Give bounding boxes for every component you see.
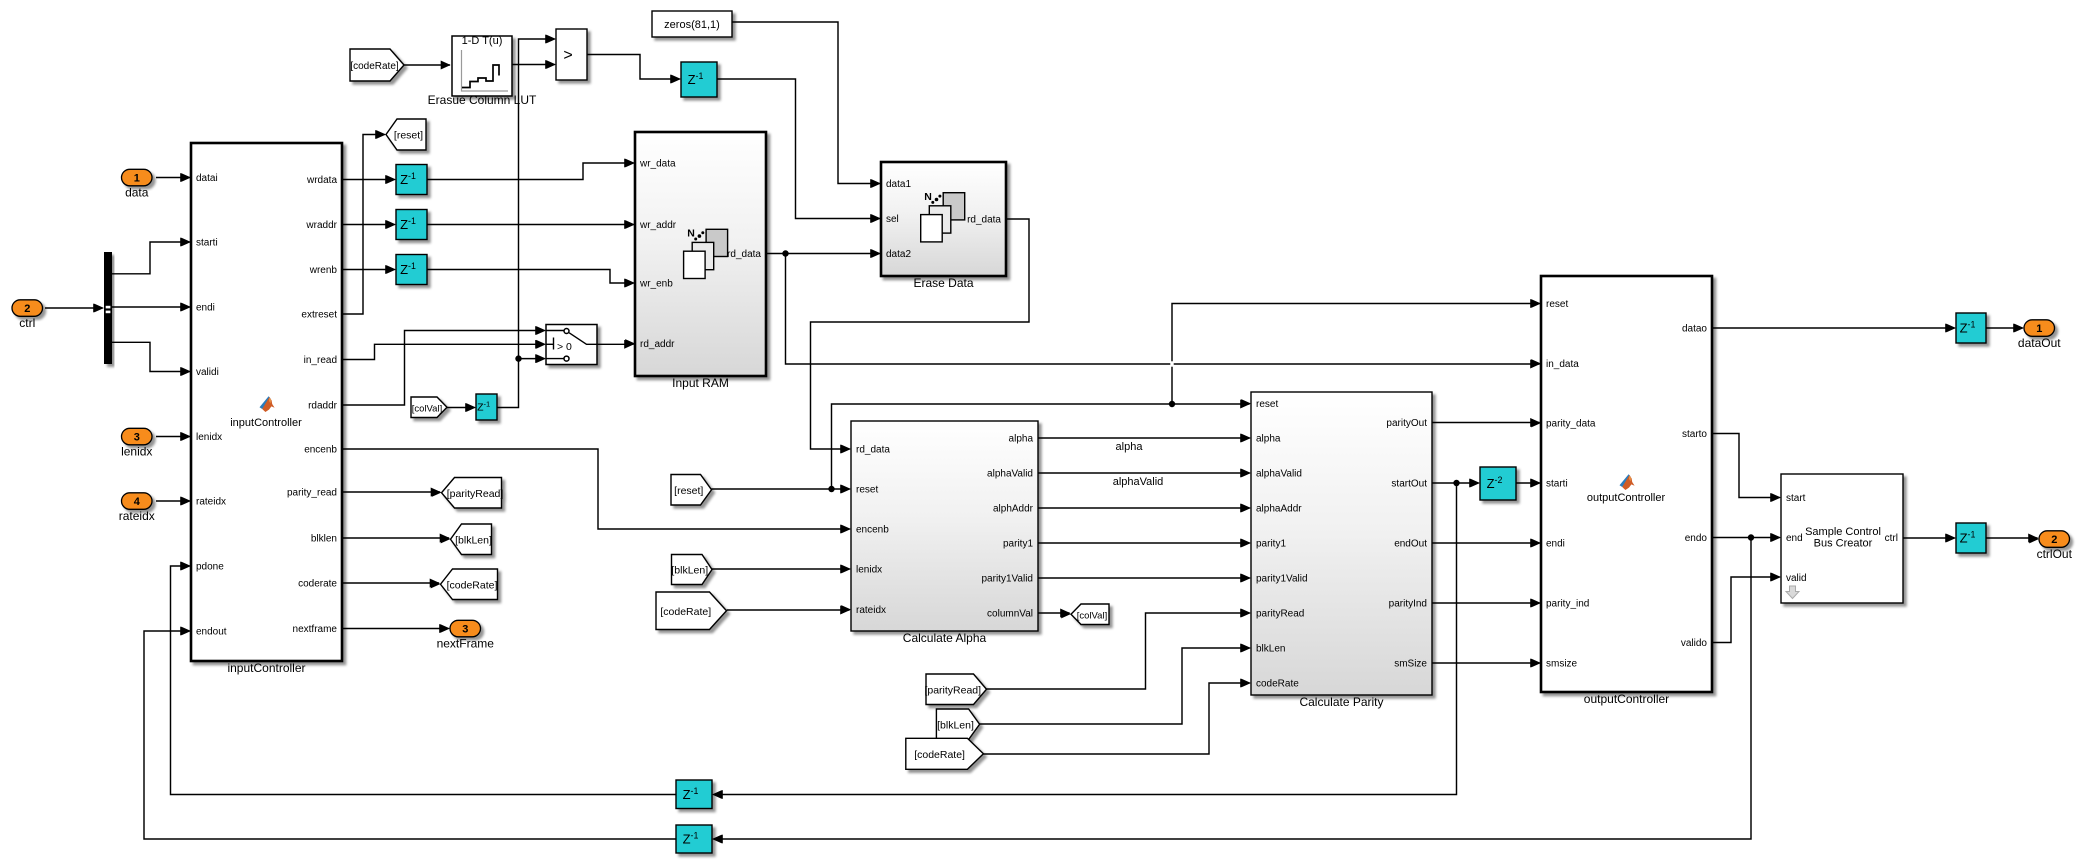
wire ctrl inport to demux [45,307,103,309]
svg-text:parity1: parity1 [1003,539,1033,550]
svg-text:starti: starti [1546,479,1568,490]
svg-text:smsize: smsize [1546,659,1578,670]
wire erase delay to Erase Data sel input [717,79,880,219]
svg-text:wrdata: wrdata [306,175,337,186]
arrows Input RAM inputs [625,159,635,348]
wire feedback delay 1 to pdone [171,566,677,795]
svg-text:Calculate Alpha: Calculate Alpha [903,631,987,645]
arrow feedback delay 2 input right side [712,835,722,844]
wire blkLen from tag to Calculate Alpha lenidx [712,568,850,570]
svg-text:[colVal]: [colVal] [1077,610,1107,621]
arrow erase delay input [671,75,681,84]
wire reset from tag to Calculate Alpha reset [712,486,850,492]
unit delay erase flag [681,62,717,97]
svg-text:valido: valido [1681,638,1708,649]
wire colVal delay up to relational first input and switch input 3 [497,39,555,408]
wire wrdata delay to Input RAM wr_data [427,163,634,180]
arrow feedback delay 1 input right side [712,790,722,799]
wire Input RAM rd_data to Erase Data data2 [766,250,880,256]
svg-text:3: 3 [462,624,468,636]
svg-text:ctrlOut: ctrlOut [2037,547,2073,561]
svg-text:endOut: endOut [1394,539,1427,550]
svg-text:Erase Data: Erase Data [913,276,973,290]
from tag parityRead bottom [924,674,986,705]
svg-text:[codeRate]: [codeRate] [447,579,498,591]
svg-text:rd_data: rd_data [967,215,1001,226]
wire startOut feedback to delay 1 [714,483,1457,795]
svg-text:2: 2 [24,303,30,315]
svg-text:rateidx: rateidx [196,497,226,508]
arrow wrdata delay input [386,175,396,184]
svg-text:sel: sel [886,214,899,225]
svg-text:[colVal]: [colVal] [412,403,442,414]
svg-text:alpha: alpha [1116,441,1144,453]
wire alphAddr signal [1038,507,1250,509]
block switch rd_addr [546,325,597,365]
subsystem Calculate Parity [1251,392,1432,695]
arrow wraddr delay input [386,220,396,229]
svg-text:start: start [1786,493,1806,504]
subsystem Erase Data [881,162,1006,276]
svg-text:endout: endout [196,627,227,638]
output delay dataOut [1956,313,1986,343]
svg-text:N: N [687,228,695,240]
wire rd_data branch down to outputController in_data [786,254,1540,365]
wire endo feedback to delay 2 [714,538,1752,840]
svg-text:endo: endo [1685,533,1708,544]
wire endOut to outputController endi [1432,542,1540,544]
unit delay wrenb [396,255,427,285]
wire in_read to switch control input [342,344,545,359]
svg-text:nextframe: nextframe [293,624,338,635]
wire reset branch up to Calculate Parity reset [832,401,1250,489]
svg-text:in_data: in_data [1546,359,1579,370]
wire switch output to Input RAM rd_addr [597,343,634,345]
wire wrenb to delay [342,269,395,271]
unit delay wraddr [396,210,427,240]
arrows switch inputs [536,326,546,363]
svg-text:Erasue Column LUT: Erasue Column LUT [428,93,537,107]
svg-text:1: 1 [2036,323,2042,335]
svg-text:encenb: encenb [856,525,889,536]
from tag codeRate middle [656,592,727,630]
wire relational output to erase delay [587,55,680,80]
svg-text:[reset]: [reset] [674,485,703,497]
wire output delay to ctrlOut outport [1984,537,2038,539]
svg-text:codeRate: codeRate [1256,679,1299,690]
svg-text:lenidx: lenidx [856,565,882,576]
svg-text:wr_addr: wr_addr [639,220,677,231]
svg-text:wrenb: wrenb [309,265,338,276]
arrows bus creator inputs [1771,493,1781,581]
svg-text:wr_data: wr_data [639,159,676,170]
wire parity1Valid signal [1038,577,1250,579]
delay Z-2 startOut [1480,467,1516,500]
outport 1 dataOut [2024,320,2055,337]
wire parity1 signal [1038,542,1250,544]
wire codeRate from tag to Calculate Parity codeRate [983,683,1249,754]
wire extreset to reset goto tag [342,135,385,315]
svg-text:alphaValid: alphaValid [1113,476,1164,488]
svg-text:> 0: > 0 [557,341,572,353]
svg-text:reset: reset [1256,399,1278,410]
wire alphaValid signal [1038,472,1250,474]
block Erasue Column LUT [452,35,512,96]
svg-text:[codeRate]: [codeRate] [660,606,711,618]
wire Z-2 delay to outputController starti [1516,482,1540,484]
from tag codeRate top left [350,49,404,81]
svg-text:wraddr: wraddr [305,220,337,231]
wire encenb to Calculate Alpha encenb [342,449,850,529]
svg-text:outputController: outputController [1587,492,1666,504]
svg-text:end: end [1786,533,1803,544]
svg-text:alpha: alpha [1009,434,1034,445]
wire codeRate tag to Erasue Column LUT [404,64,450,66]
svg-text:parity_data: parity_data [1546,419,1596,430]
arrow reset goto input [376,130,386,139]
svg-text:lenidx: lenidx [196,432,222,443]
svg-text:rateidx: rateidx [119,509,155,523]
feedback delay 1 pdone [676,780,712,809]
arrow wrenb delay input [386,265,396,274]
svg-text:parityInd: parityInd [1389,599,1427,610]
svg-text:ctrl: ctrl [1885,533,1898,544]
from tag colVal left [411,397,447,418]
wire wrdata to delay [342,179,395,181]
subsystem inputController [191,143,342,661]
arrow dataOut delay input [1946,324,1956,333]
wire blkLen from tag to Calculate Parity blkLen [980,648,1250,724]
wire endo to bus creator end [1712,534,1780,540]
wire crossing gap at in_data line [1170,361,1173,366]
svg-text:ctrl: ctrl [19,316,35,330]
svg-text:[codeRate]: [codeRate] [350,61,399,72]
svg-text:data: data [125,185,149,199]
svg-text:parity1: parity1 [1256,539,1286,550]
svg-text:smSize: smSize [1394,659,1427,670]
svg-text:parity_ind: parity_ind [1546,599,1589,610]
svg-text:[parityRead]: [parityRead] [924,684,981,696]
wire demux output 1 to starti [112,242,190,274]
svg-text:starti: starti [196,238,218,249]
svg-text:4: 4 [134,496,141,508]
svg-text:reset: reset [856,485,878,496]
wire data inport to inputController datai [156,177,190,179]
svg-text:Calculate Parity: Calculate Parity [1299,695,1383,709]
svg-text:[blkLen]: [blkLen] [671,565,708,577]
svg-text:[reset]: [reset] [394,130,423,142]
wire smSize to outputController smsize [1432,662,1540,664]
arrows outputController inputs [1531,299,1541,667]
svg-text:3: 3 [134,432,140,444]
outport 2 ctrlOut [2039,531,2070,548]
block Sample Control Bus Creator [1781,474,1903,603]
svg-text:Sample Control: Sample Control [1805,526,1881,538]
unit delay wrdata [396,165,427,195]
svg-text:coderate: coderate [298,579,337,590]
wire parityInd to outputController parity_ind [1432,602,1540,604]
svg-text:in_read: in_read [304,355,337,366]
subsystem outputController [1541,276,1712,692]
svg-text:1: 1 [134,173,140,185]
svg-text:[codeRate]: [codeRate] [914,749,965,761]
wire demux output 2 to endi [112,306,190,308]
wire bus creator ctrl to output delay [1903,537,1955,539]
svg-text:1-D T(u): 1-D T(u) [462,35,503,47]
wire reset branch up to outputController reset [1172,304,1540,405]
unit delay colVal [476,394,497,420]
svg-text:rdaddr: rdaddr [308,401,338,412]
svg-text:encenb: encenb [304,445,337,456]
svg-text:extreset: extreset [301,310,337,321]
svg-text:validi: validi [196,367,219,378]
wire starto to bus creator start [1712,434,1780,498]
wire blklen to blkLen goto tag [342,537,449,539]
svg-text:reset: reset [1546,299,1568,310]
svg-text:inputController: inputController [230,417,302,429]
arrow demux input [94,304,104,313]
goto tag reset top [386,119,426,150]
wire alpha signal [1038,437,1250,439]
arrow colVal delay input [466,403,476,412]
wire colVal from tag to delay [447,407,475,409]
wire coderate to codeRate goto tag [342,582,439,584]
svg-text:[blkLen]: [blkLen] [455,534,492,546]
svg-text:endi: endi [196,303,215,314]
wire zeros constant to Erase Data data1 input [732,22,880,184]
svg-text:columnVal: columnVal [987,609,1033,620]
svg-text:valid: valid [1786,573,1807,584]
from tag codeRate bottom [906,738,984,769]
svg-text:wr_enb: wr_enb [639,279,673,290]
svg-text:rd_addr: rd_addr [640,339,675,350]
svg-text:pdone: pdone [196,562,224,573]
block constant zeros(81,1) [652,11,732,37]
svg-text:alphAddr: alphAddr [993,504,1034,515]
svg-text:inputController: inputController [227,661,305,675]
arrow Z-2 input [1470,479,1480,488]
arrows Calculate Parity inputs [1241,399,1251,687]
arrow codeRate goto input [431,580,441,589]
svg-text:rateidx: rateidx [856,605,886,616]
svg-text:outputController: outputController [1584,692,1669,706]
svg-text:alphaValid: alphaValid [1256,469,1302,480]
outport 3 nextFrame [450,620,481,637]
wire parityOut to outputController parity_data [1432,422,1540,424]
svg-text:parity1Valid: parity1Valid [1256,574,1308,585]
arrow ctrlOut delay input [1946,534,1956,543]
inport 2 ctrl [12,300,43,317]
arrows Erase Data inputs [871,179,881,258]
inport 3 lenidx [122,428,153,445]
feedback delay 2 endout [676,825,712,853]
svg-text:Bus Creator: Bus Creator [1814,538,1873,550]
subsystem Input RAM [635,132,766,376]
wire demux output 3 to validi [112,342,190,371]
goto tag parityRead [442,478,504,509]
svg-text:parityRead: parityRead [1256,609,1304,620]
svg-text:lenidx: lenidx [121,444,152,458]
wire lenidx inport to inputController lenidx [156,436,190,438]
arrow ctrlOut outport input [2029,535,2039,544]
output delay ctrlOut [1956,523,1986,553]
goto tag colVal right [1071,604,1109,625]
wire output delay to dataOut outport [1986,327,2023,329]
svg-text:nextFrame: nextFrame [437,636,495,650]
from tag reset middle [671,475,712,506]
wire nextframe to nextFrame outport [342,628,449,630]
svg-text:starto: starto [1682,429,1707,440]
svg-text:data2: data2 [886,249,911,260]
arrow parityRead goto input [432,488,442,497]
svg-text:>: > [563,47,572,64]
block relational operator greater-than [556,29,587,80]
from tag blkLen bottom [936,709,979,740]
svg-text:alphaAddr: alphaAddr [1256,504,1302,515]
svg-text:endi: endi [1546,539,1565,550]
svg-text:Input RAM: Input RAM [672,376,729,390]
subsystem Calculate Alpha [851,421,1038,631]
arrow nextFrame outport input [440,624,450,633]
wire columnVal to colVal goto tag [1038,612,1070,614]
wire wraddr to delay [342,224,395,226]
svg-text:alpha: alpha [1256,434,1281,445]
svg-text:parityOut: parityOut [1386,418,1427,429]
svg-text:rd_data: rd_data [856,445,890,456]
wire colVal branch to switch input 3 [519,358,545,360]
goto tag codeRate [441,569,498,600]
wire codeRate from tag to Calculate Alpha rateidx [727,609,850,611]
svg-text:datai: datai [196,173,218,184]
wire valido to bus creator valid [1712,577,1780,643]
svg-text:datao: datao [1682,324,1707,335]
svg-text:[blkLen]: [blkLen] [937,719,974,731]
wire Erase Data rd_data loop to Calculate Alpha rd_data [811,219,1030,449]
arrow blkLen goto input [441,535,451,544]
svg-text:2: 2 [2051,534,2057,546]
svg-text:startOut: startOut [1391,479,1427,490]
svg-text:[parityRead]: [parityRead] [447,488,504,500]
wire parityRead from tag to Calculate Parity parityRead [986,613,1249,689]
svg-text:blkLen: blkLen [1256,644,1285,655]
wire wrenb delay to Input RAM wr_enb [427,270,634,284]
wire wraddr delay to Input RAM wr_addr [427,224,634,226]
arrow colVal goto input [1061,610,1071,619]
svg-text:parity1Valid: parity1Valid [981,574,1033,585]
wire parity_read to parityRead goto tag [342,491,440,493]
inport 4 rateidx [122,493,153,510]
svg-text:dataOut: dataOut [2018,336,2061,350]
arrows inputController inputs [181,173,191,635]
svg-text:blklen: blklen [311,534,337,545]
svg-text:zeros(81,1): zeros(81,1) [664,19,720,31]
arrows relational inputs [546,35,556,69]
arrow dataOut outport input [2014,324,2024,333]
arrows Calculate Alpha inputs [841,445,851,614]
svg-text:parity_read: parity_read [287,488,337,499]
wire feedback delay 2 to endout [144,631,676,839]
demux bus selector bar [104,252,112,364]
svg-text:alphaValid: alphaValid [987,469,1033,480]
wire rdaddr to switch input 1 [342,331,545,406]
inport 1 data [122,169,153,186]
svg-text:N: N [924,191,932,203]
svg-text:data1: data1 [886,179,911,190]
svg-text:rd_data: rd_data [727,249,761,260]
wire LUT output to relational operator second input [512,64,555,66]
from tag blkLen middle [671,555,712,585]
wire rateidx inport to inputController rateidx [156,500,190,502]
wire startOut to Z-2 delay [1432,480,1479,486]
goto tag blkLen [451,524,492,555]
wire datao to output delay [1712,327,1955,329]
